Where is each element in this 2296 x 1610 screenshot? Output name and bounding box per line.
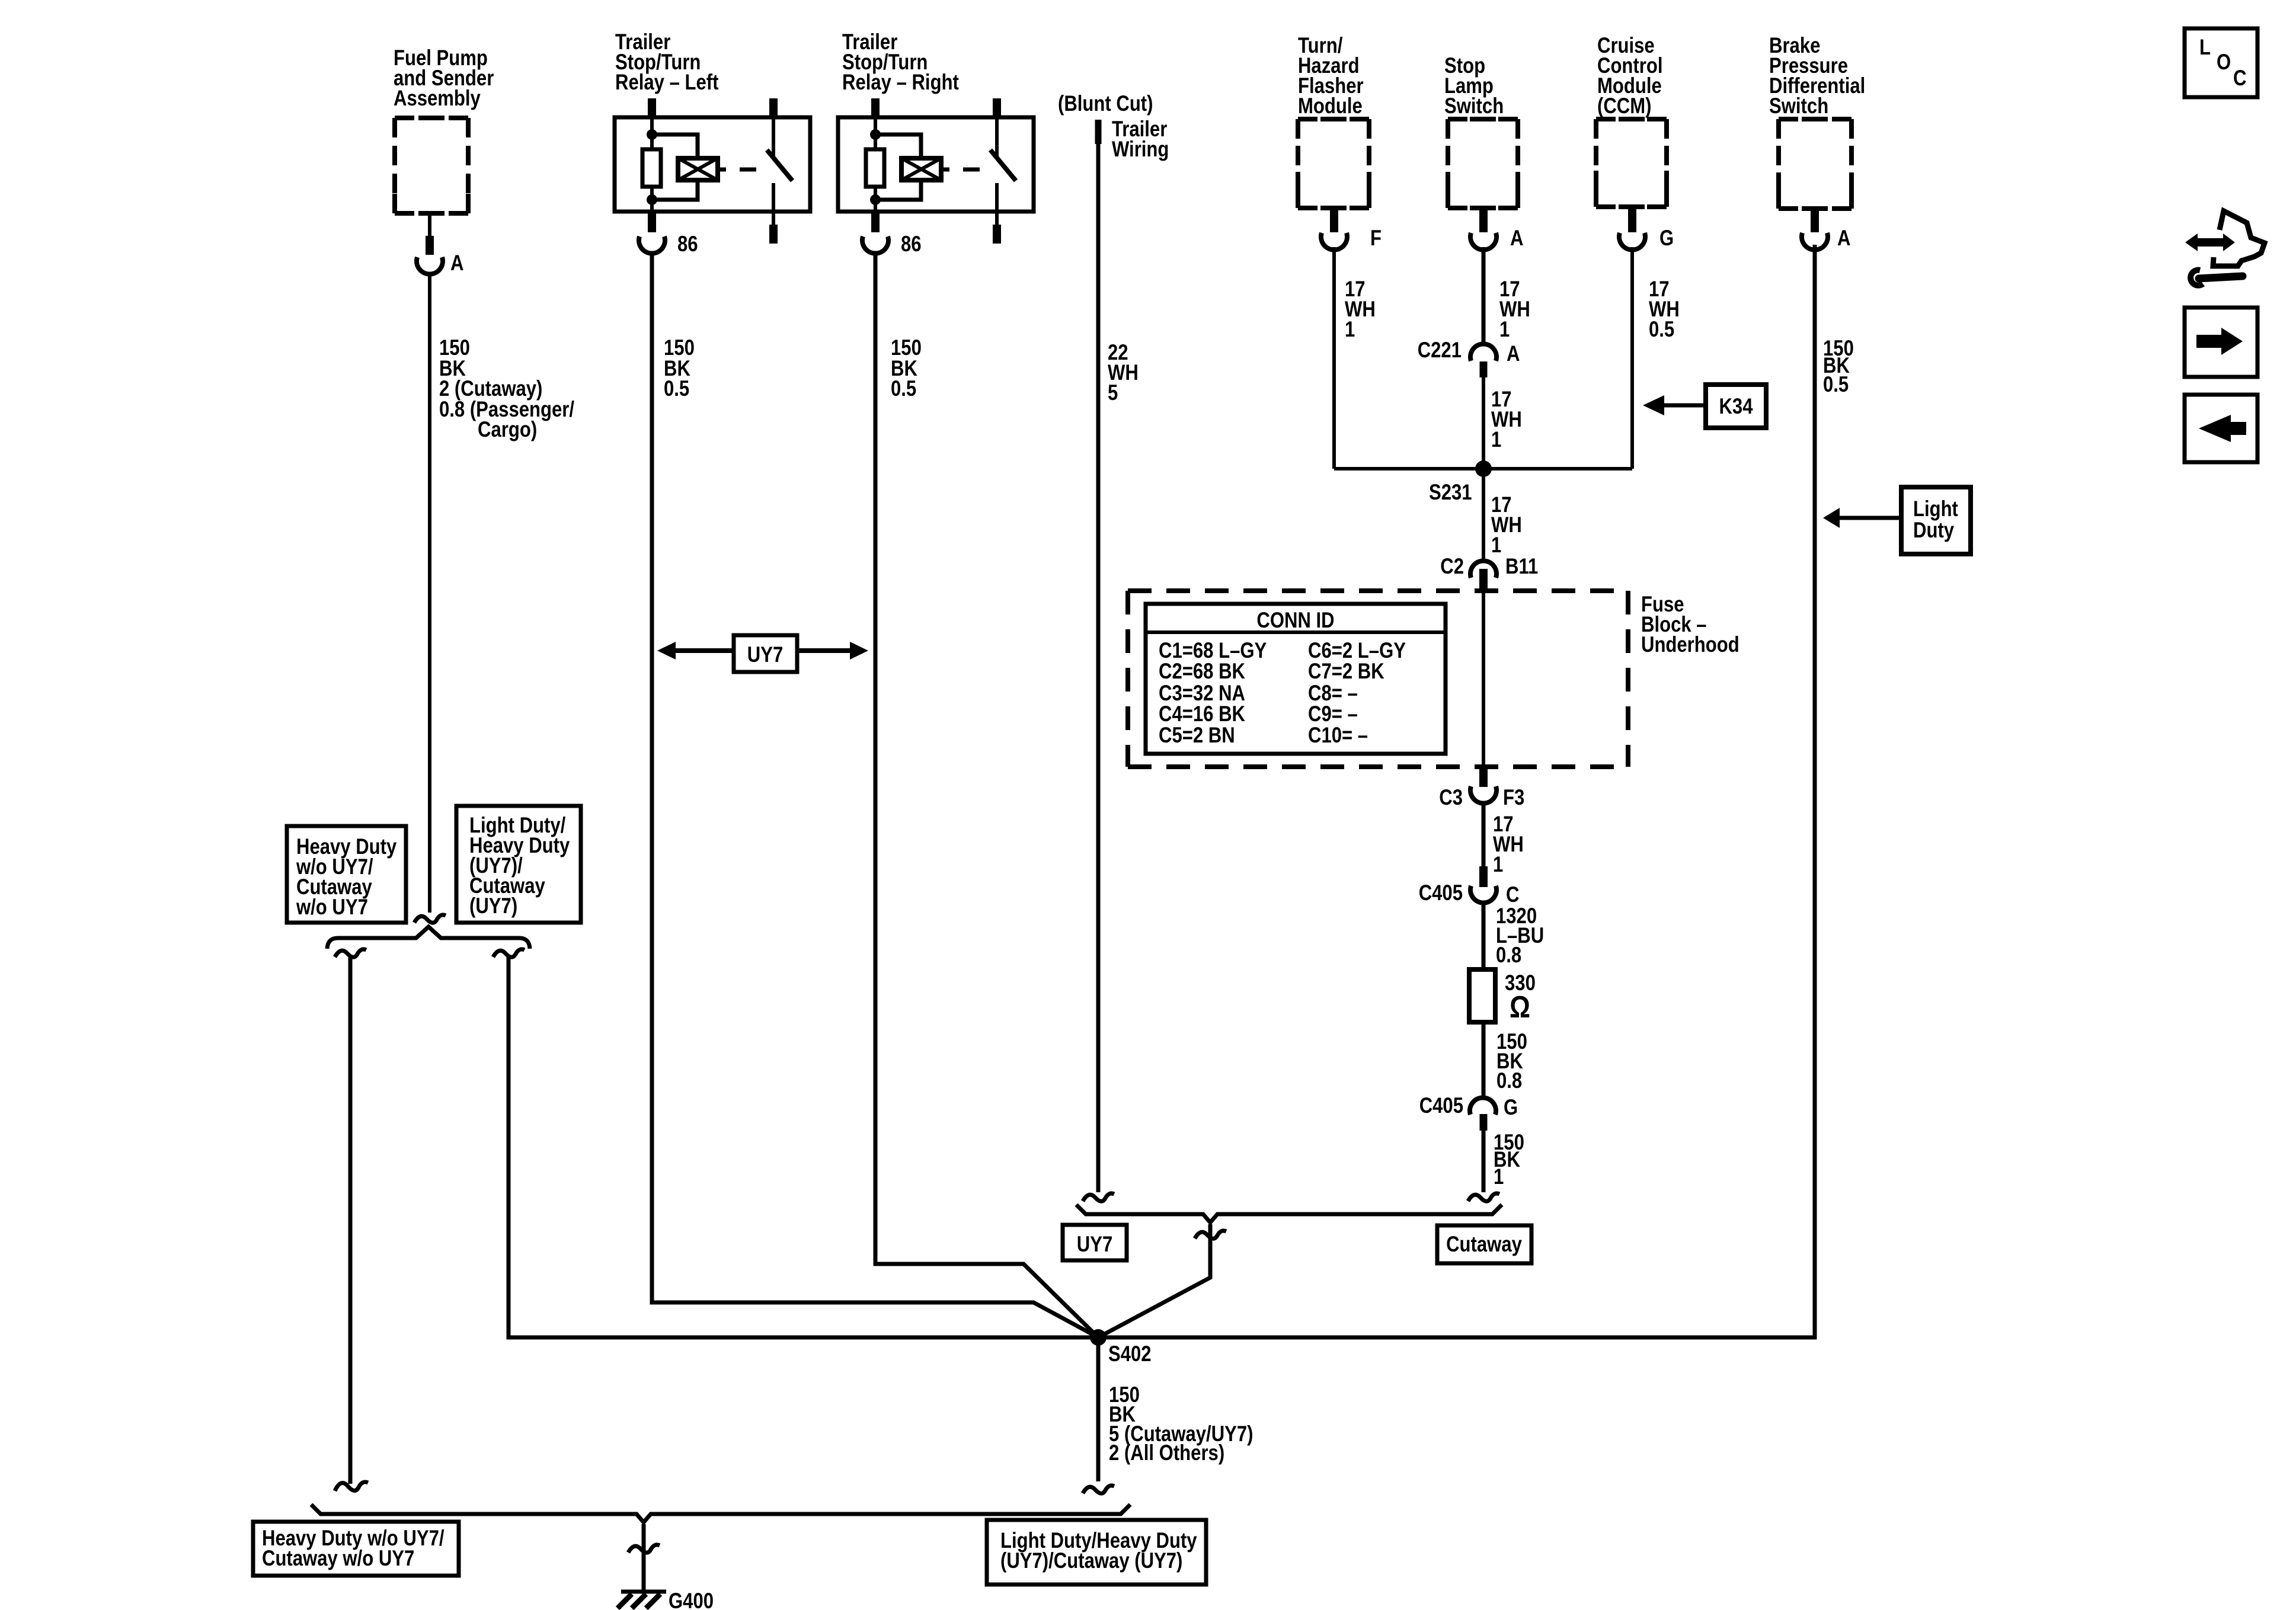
- component Stop Lamp Switch (dashed box): [1448, 119, 1518, 208]
- wire right relay 86 down: [875, 255, 1098, 1337]
- wire left relay 86 down: [652, 255, 1098, 1337]
- svg-text:w/o UY7: w/o UY7: [296, 895, 368, 919]
- wire fuel pump vertical 150 BK: [428, 274, 431, 913]
- svg-text:C2: C2: [1440, 554, 1464, 578]
- brace alternatives under fuel pump wire: [327, 927, 530, 949]
- svg-text:0.5: 0.5: [664, 376, 689, 401]
- wire label 1320 L-BU 0.8: [1496, 904, 1544, 967]
- svg-text:86: 86: [901, 232, 922, 256]
- wire label 150 BK 2 (Cutaway) 0.8 (Passenger/Cargo): [439, 335, 574, 441]
- svg-text:B11: B11: [1505, 554, 1538, 578]
- break symbol on ground tap: [628, 1545, 660, 1553]
- connector pin A of brake pressure switch: [1811, 210, 1819, 232]
- bottom bus brace to G400: [311, 1505, 1130, 1522]
- svg-text:G: G: [1659, 226, 1674, 250]
- box Light Duty/Heavy Duty (UY7)/Cutaway (UY7): [456, 806, 581, 923]
- CONN ID table: [1146, 604, 1446, 754]
- svg-text:C3: C3: [1439, 785, 1463, 809]
- svg-text:C9= –: C9= –: [1308, 702, 1358, 726]
- Light Duty callout box and arrow: [1901, 487, 1971, 554]
- svg-text:1: 1: [1499, 317, 1510, 341]
- wire C221 to S231: [1482, 377, 1485, 469]
- wire stop lamp switch down to C221: [1482, 247, 1486, 344]
- svg-text:Assembly: Assembly: [394, 86, 481, 110]
- svg-text:F3: F3: [1503, 785, 1524, 809]
- splice node S231: [1475, 460, 1492, 477]
- connector pin 86 of left relay: [639, 236, 665, 254]
- svg-text:Cutaway w/o UY7: Cutaway w/o UY7: [262, 1546, 414, 1570]
- resistor 330 ohm: [1469, 969, 1495, 1022]
- svg-text:L: L: [2199, 35, 2211, 59]
- wire label 17 WH 0.5 (CCM): [1649, 277, 1680, 341]
- wire light duty branch vertical and S402 horizontal run: [509, 245, 1815, 1337]
- wire label 150 BK 0.8: [1496, 1029, 1527, 1093]
- connector pin A of stop lamp switch: [1479, 209, 1488, 232]
- Fuse Block - Underhood dashed border: [1128, 591, 1628, 767]
- wire blunt cut trailer wiring stub: [1095, 120, 1102, 144]
- svg-text:Module: Module: [1298, 94, 1363, 118]
- wire label 17 WH 1 (C3-C405): [1493, 812, 1524, 876]
- svg-text:A: A: [450, 251, 464, 275]
- svg-text:C: C: [1506, 882, 1520, 907]
- wire C3 to C405: [1482, 804, 1486, 868]
- wire label 22 WH 5: [1108, 340, 1139, 405]
- svg-text:(UY7)/Cutaway (UY7): (UY7)/Cutaway (UY7): [1000, 1548, 1182, 1573]
- svg-text:G: G: [1504, 1095, 1518, 1119]
- svg-text:86: 86: [677, 232, 698, 256]
- break symbol at heavy duty branch bottom: [335, 1482, 368, 1491]
- component Fuel Pump and Sender Assembly (dashed box): [395, 118, 468, 213]
- svg-text:K34: K34: [1719, 394, 1753, 418]
- connector pin 86 of right relay: [862, 236, 888, 254]
- break symbol at C405 G wire end: [1468, 1193, 1499, 1201]
- svg-text:F: F: [1370, 226, 1382, 250]
- svg-text:G400: G400: [669, 1589, 714, 1610]
- wire label 150 BK 0.5 (right relay): [891, 335, 922, 401]
- wire ground tap: [642, 1524, 646, 1592]
- svg-text:Relay – Left: Relay – Left: [615, 70, 719, 94]
- svg-text:A: A: [1837, 226, 1851, 250]
- break symbol on bus center tap: [1195, 1231, 1226, 1238]
- wire label 150 BK 1: [1494, 1130, 1524, 1189]
- break symbol on heavy duty branch: [335, 949, 366, 957]
- label (Blunt Cut) Trailer Wiring: [1058, 91, 1169, 161]
- svg-text:A: A: [1507, 341, 1520, 366]
- svg-text:1: 1: [1345, 317, 1355, 341]
- box Heavy Duty w/o UY7/Cutaway w/o UY7 (bottom): [253, 1522, 459, 1576]
- svg-text:A: A: [1510, 226, 1524, 250]
- svg-text:C405: C405: [1419, 881, 1463, 905]
- wire bus center tap to S402: [1098, 1224, 1210, 1337]
- svg-text:Duty: Duty: [1913, 518, 1954, 542]
- connector C3 pin F3: [1479, 768, 1488, 787]
- wire label 17 WH 1 (flasher): [1345, 277, 1376, 341]
- break symbol at fuel pump wire end: [414, 915, 446, 923]
- component Cruise Control Module CCM (dashed box): [1596, 119, 1667, 207]
- wire label 150 BK 0.5 (brake pressure switch): [1823, 336, 1854, 396]
- splice node S402: [1090, 1329, 1107, 1346]
- wire label 17 WH 1 (stop lamp): [1499, 277, 1530, 341]
- connector C2 pin B11: [1470, 561, 1496, 578]
- wire C405 G down: [1482, 1131, 1486, 1192]
- wire label 17 WH 1 (C221-S231): [1491, 387, 1522, 452]
- svg-text:Switch: Switch: [1769, 94, 1828, 118]
- icon vehicle silhouette with double arrow and wrench: [2185, 211, 2265, 286]
- connector C405 pin C: [1479, 866, 1488, 887]
- svg-text:Cutaway: Cutaway: [1446, 1232, 1522, 1256]
- ground G400: [621, 1590, 666, 1594]
- svg-text:Switch: Switch: [1444, 94, 1504, 118]
- bus brace UY7/Cutaway alternatives: [1076, 1205, 1502, 1222]
- svg-text:C4=16 BK: C4=16 BK: [1159, 702, 1245, 726]
- connector C405 pin G: [1470, 1097, 1496, 1115]
- svg-text:2 (All Others): 2 (All Others): [1109, 1441, 1224, 1465]
- wire blunt cut trailer wiring vertical: [1096, 144, 1101, 1192]
- component Turn/Hazard Flasher Module (dashed box): [1298, 119, 1369, 208]
- svg-text:0.8: 0.8: [1496, 943, 1521, 967]
- svg-text:(CCM): (CCM): [1597, 94, 1652, 118]
- wire C405 to resistor: [1482, 904, 1486, 969]
- box Heavy Duty w/o UY7/Cutaway w/o UY7: [287, 826, 406, 923]
- svg-text:C405: C405: [1419, 1093, 1463, 1118]
- break symbol on light duty branch: [493, 949, 525, 957]
- icon box arrow right: [2185, 308, 2257, 377]
- svg-text:(UY7): (UY7): [469, 894, 517, 918]
- svg-text:UY7: UY7: [747, 642, 784, 667]
- svg-text:Light: Light: [1913, 497, 1958, 521]
- connector pin G of CCM: [1628, 207, 1636, 232]
- break symbol at S402 wire end: [1083, 1486, 1114, 1493]
- svg-text:1: 1: [1491, 533, 1501, 557]
- relay U2 Trailer Stop/Turn Relay - Right: [838, 98, 1034, 244]
- box Light Duty/Heavy Duty (UY7)/Cutaway (UY7) (bottom): [987, 1520, 1206, 1585]
- wire fuel pump pigtail and connector A: [428, 213, 431, 236]
- svg-text:S231: S231: [1429, 480, 1472, 504]
- option box Cutaway (bus): [1437, 1225, 1531, 1263]
- svg-text:(Blunt Cut): (Blunt Cut): [1058, 91, 1153, 116]
- svg-text:0.8: 0.8: [1496, 1068, 1522, 1093]
- wire S402 down: [1096, 1337, 1101, 1481]
- svg-text:Relay – Right: Relay – Right: [842, 70, 959, 94]
- icon LOC box: [2185, 28, 2257, 97]
- icon box arrow left: [2185, 395, 2257, 462]
- wire CCM G down to S231: [1630, 247, 1634, 469]
- svg-text:CONN ID: CONN ID: [1256, 608, 1334, 632]
- wire label 150 BK 0.5 (left relay): [664, 335, 695, 401]
- svg-text:O: O: [2217, 50, 2231, 74]
- connector pin F of flasher: [1330, 209, 1338, 232]
- wire label 17 WH 1 (S231-C2): [1491, 492, 1522, 557]
- wire label 150 BK 5 (Cutaway/UY7) 2 (All Others): [1109, 1382, 1253, 1465]
- svg-text:Cargo): Cargo): [478, 417, 537, 441]
- svg-text:5: 5: [1108, 380, 1118, 405]
- svg-text:C: C: [2233, 66, 2247, 90]
- svg-text:1: 1: [1494, 1164, 1504, 1189]
- option box UY7 with double arrow: [734, 635, 797, 672]
- wire flasher F down to S231: [1332, 247, 1336, 469]
- svg-text:Underhood: Underhood: [1641, 632, 1739, 657]
- svg-text:C2=68 BK: C2=68 BK: [1159, 659, 1245, 683]
- svg-text:0.5: 0.5: [1649, 317, 1674, 341]
- svg-text:S402: S402: [1108, 1342, 1152, 1366]
- svg-text:C10= –: C10= –: [1308, 723, 1368, 747]
- svg-text:1: 1: [1491, 427, 1501, 452]
- wire through fuse block: [1482, 593, 1485, 768]
- svg-text:C5=2 BN: C5=2 BN: [1159, 723, 1235, 747]
- svg-text:1: 1: [1493, 852, 1503, 876]
- wire S231 to C2: [1482, 469, 1485, 559]
- svg-text:C7=2 BK: C7=2 BK: [1308, 659, 1384, 683]
- svg-text:Wiring: Wiring: [1112, 137, 1169, 161]
- svg-text:UY7: UY7: [1077, 1232, 1113, 1256]
- svg-text:C221: C221: [1418, 338, 1462, 362]
- svg-text:0.5: 0.5: [891, 376, 916, 401]
- wire heavy duty branch vertical: [348, 956, 353, 1484]
- svg-text:Ω: Ω: [1510, 990, 1530, 1025]
- connector C221 pin A: [1470, 344, 1496, 361]
- K34 callout box and arrow: [1706, 385, 1766, 428]
- wire S231 collector horizontal: [1334, 467, 1632, 470]
- component Brake Pressure Differential Switch (dashed box): [1779, 119, 1851, 209]
- wire resistor to C405 G: [1482, 1022, 1486, 1097]
- relay U1 Trailer Stop/Turn Relay - Left: [615, 98, 810, 244]
- option box UY7 (bus): [1063, 1225, 1127, 1260]
- break symbol at trailer wiring end: [1083, 1193, 1114, 1201]
- svg-text:0.5: 0.5: [1823, 372, 1849, 396]
